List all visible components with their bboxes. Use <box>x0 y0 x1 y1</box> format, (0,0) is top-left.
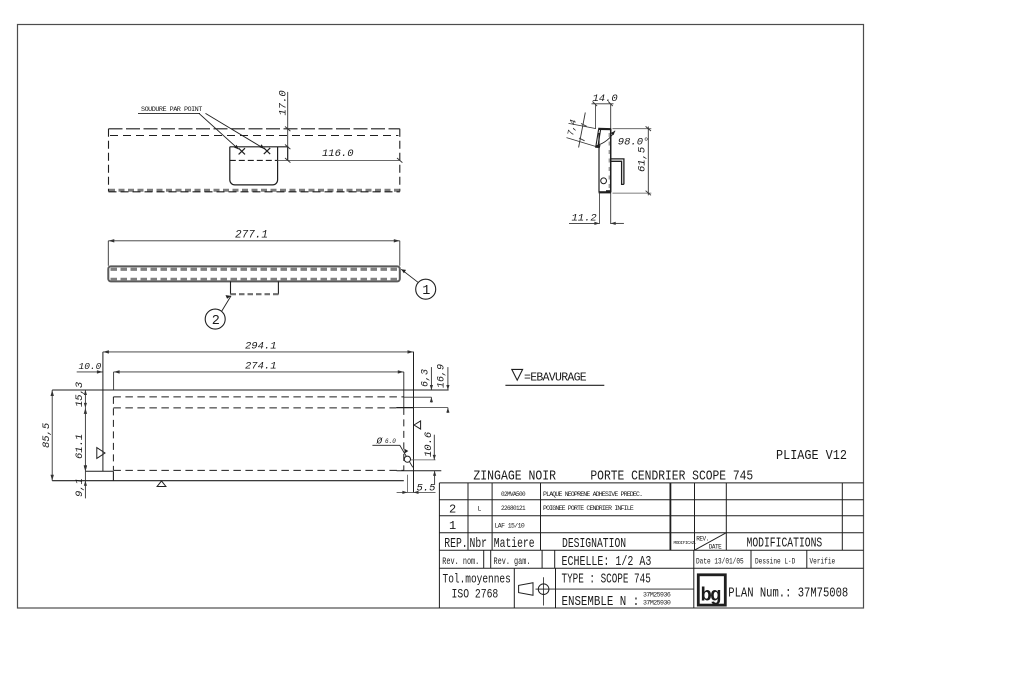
dim 15,3 line <box>84 390 86 408</box>
svg-text:9,1: 9,1 <box>74 478 86 497</box>
bend line dashed top2 <box>113 407 396 409</box>
bottom edge + left extension <box>52 480 404 482</box>
svg-text:Verifie: Verifie <box>810 558 836 567</box>
svg-text:SOUDURE PAR POINT: SOUDURE PAR POINT <box>141 106 202 114</box>
svg-text:PLAN Num.: 37M75008: PLAN Num.: 37M75008 <box>728 585 848 601</box>
col Matiere right <box>540 483 542 550</box>
projection symbol v axis <box>543 577 545 605</box>
balloon 2 leader <box>222 296 231 311</box>
body bottom edge thick hidden band <box>109 189 400 192</box>
svg-text:2: 2 <box>212 314 220 329</box>
weld leader 2 <box>206 113 265 148</box>
tab right edge <box>277 281 279 294</box>
svg-text:10.0: 10.0 <box>79 361 102 372</box>
row6 col symbol right <box>555 568 557 608</box>
svg-text:Rev. nom.: Rev. nom. <box>442 556 479 568</box>
weld mark x1 <box>239 148 245 154</box>
dim 277.1 ext left <box>107 241 109 266</box>
svg-text:ECHELLE: 1/2 A3: ECHELLE: 1/2 A3 <box>562 554 652 570</box>
web left edge <box>598 133 600 192</box>
col at 694.5 <box>694 483 696 550</box>
svg-text:Nbr: Nbr <box>470 536 487 552</box>
projection symbol circle <box>538 584 549 595</box>
svg-text:10.6: 10.6 <box>423 432 435 457</box>
svg-text:16,9: 16,9 <box>437 364 448 388</box>
angle 98 arc <box>596 131 615 146</box>
hidden dashes on web <box>608 133 610 190</box>
weld mark x2 <box>264 148 270 154</box>
type/ensemble divider <box>549 588 694 590</box>
dim 10.6 line <box>433 435 435 460</box>
row6 col tol right <box>513 568 515 608</box>
weld leader 1 <box>199 113 239 149</box>
flange end fold cap <box>595 146 599 148</box>
svg-text:bg: bg <box>701 585 721 607</box>
svg-text:294.1: 294.1 <box>245 341 277 353</box>
dim 9,1 line with outside arrows <box>84 471 86 498</box>
projection symbol cone <box>519 583 533 596</box>
svg-text:ENSEMBLE N :: ENSEMBLE N : <box>562 594 640 609</box>
deburr triangle right <box>414 421 421 429</box>
svg-text:TYPE : SCOPE 745: TYPE : SCOPE 745 <box>562 572 651 587</box>
bend line dashed right vertical <box>403 408 405 471</box>
svg-text:PLAQUE NEOPRENE ADHESIVE PREDE: PLAQUE NEOPRENE ADHESIVE PREDEC. <box>543 491 642 498</box>
svg-text:61,5: 61,5 <box>637 146 649 172</box>
col REP right <box>467 483 469 550</box>
svg-text:PORTE CENDRIER SCOPE 745: PORTE CENDRIER SCOPE 745 <box>590 467 753 484</box>
tab L outer <box>611 159 624 185</box>
tab L inner <box>611 161 624 184</box>
body outline right edge (dashed) <box>399 129 401 192</box>
dim 14.0 ext left <box>595 104 597 129</box>
rev/date diagonal <box>695 533 727 551</box>
ext for 6,3 <box>404 396 432 398</box>
bottom-left notch vertical <box>112 471 114 480</box>
svg-text:=EBAVURAGE: =EBAVURAGE <box>524 372 587 385</box>
block left edge <box>438 483 440 608</box>
dim 7,4 line <box>579 113 586 148</box>
dim 16,9 line <box>447 367 449 390</box>
dim 11.2 ext left <box>598 192 600 224</box>
body bottom edge thin dashed <box>109 191 400 193</box>
svg-text:DESIGNATION: DESIGNATION <box>562 536 626 552</box>
balloon 2 <box>205 309 225 329</box>
left edge + extension up to 294.1 <box>102 352 104 471</box>
bend line dashed bottom <box>113 469 403 471</box>
hole leader line <box>372 445 412 467</box>
col Designation right (thick) <box>669 483 671 550</box>
dim 116.0 line <box>278 159 400 161</box>
row5 col e <box>693 550 695 608</box>
svg-text:37M25936: 37M25936 <box>643 591 671 598</box>
ebavurage underline <box>505 384 604 386</box>
drawing frame <box>18 25 864 609</box>
strip hidden thick band top <box>111 268 399 271</box>
svg-text:PLIAGE V12: PLIAGE V12 <box>776 447 847 463</box>
dim 277.1 ext right <box>399 241 401 266</box>
svg-text:6,3: 6,3 <box>421 369 432 387</box>
flange end fold outer <box>596 129 599 146</box>
top-right notch edge + ext for 16,9 <box>396 407 413 409</box>
dim 17.0 line <box>287 92 289 147</box>
dim 61,5 ext top <box>613 128 652 130</box>
dim 6,3 line <box>430 367 432 390</box>
top edge + extensions <box>52 389 448 391</box>
bg logo box <box>698 575 725 605</box>
tab bottom hidden edge <box>231 293 279 295</box>
col at 726.3 <box>725 483 727 550</box>
dim 10.6 ext at hole center <box>410 459 435 461</box>
svg-text:Date 13/01/05: Date 13/01/05 <box>696 558 744 567</box>
svg-text:POIGNEE PORTE CENDRIER INFILE: POIGNEE PORTE CENDRIER INFILE <box>543 505 634 512</box>
tab left edge <box>230 281 232 294</box>
block outer top edge <box>439 482 863 484</box>
svg-text:274.1: 274.1 <box>245 361 277 373</box>
col Nbr right <box>491 483 493 550</box>
svg-text:DATE: DATE <box>709 544 722 551</box>
strip outline <box>108 266 400 281</box>
projection symbol h axis <box>536 588 550 590</box>
right edge full + extensions <box>413 352 415 493</box>
svg-text:1: 1 <box>422 284 430 299</box>
svg-text:L: L <box>478 506 482 513</box>
bottom-left notch horizontal <box>85 470 113 472</box>
row5 col c <box>541 550 543 568</box>
row line 5 <box>439 567 863 569</box>
svg-text:277.1: 277.1 <box>235 230 268 242</box>
right edge of web + dim extensions <box>610 104 612 224</box>
hole Ø6.0 <box>404 456 410 462</box>
svg-text:REV.: REV. <box>696 536 708 543</box>
dim 11.2 line left part <box>569 222 599 224</box>
ebavurage triangle symbol <box>512 369 523 380</box>
svg-text:02MVA500: 02MVA500 <box>501 491 526 498</box>
pocket hidden dashed line <box>230 159 278 161</box>
svg-text:37M25930: 37M25930 <box>643 599 671 606</box>
handle pocket outline <box>230 147 288 185</box>
body outline left edge (dashed) <box>108 129 110 192</box>
dim 274.1 line <box>114 371 404 373</box>
bend line dashed left vertical <box>112 397 114 471</box>
svg-text:116.0: 116.0 <box>322 148 354 160</box>
deburr triangle left <box>97 448 105 459</box>
svg-text:85,5: 85,5 <box>41 422 53 448</box>
dim 294.1 line <box>103 351 414 353</box>
svg-text:17.0: 17.0 <box>278 90 290 115</box>
dim 7,4 ext lines <box>569 123 597 128</box>
strip hidden thick band bottom <box>111 278 399 281</box>
dim 61,5 line <box>647 127 649 196</box>
row line 2 <box>439 515 863 517</box>
dim 61,5 ext bottom <box>613 192 652 194</box>
svg-text:7,4: 7,4 <box>566 119 579 137</box>
row line 3 <box>439 532 863 534</box>
svg-text:MODIFICATIONS: MODIFICATIONS <box>747 535 823 551</box>
svg-text:1: 1 <box>449 519 456 533</box>
col at 842.3 <box>841 483 843 550</box>
deburr triangle bottom <box>157 481 166 487</box>
row5 col a <box>483 550 485 568</box>
bottom-right notch edge + exts <box>397 470 442 472</box>
dim 5.5 ext from hole <box>406 475 408 493</box>
row line 1 <box>439 499 863 501</box>
body outline top edge (dashed) <box>109 128 400 130</box>
dim 10.0 line <box>77 371 103 373</box>
svg-text:Matiere: Matiere <box>494 536 535 552</box>
dim 85,5 line <box>51 390 53 481</box>
dim 5.5 line <box>397 491 436 493</box>
svg-text:Dessine L·D: Dessine L·D <box>755 558 796 567</box>
balloon 1 <box>416 279 436 299</box>
svg-text:ZINGAGE NOIR: ZINGAGE NOIR <box>473 467 556 483</box>
weld circle on web <box>601 178 607 184</box>
bend line dashed top1 <box>113 396 403 398</box>
top flange (98 deg) <box>598 128 611 131</box>
dim 11.2 line right part <box>611 222 624 224</box>
inner fold dashed line <box>110 135 399 137</box>
svg-text:Tol.moyennes: Tol.moyennes <box>443 573 511 587</box>
flange end fold inner <box>598 130 601 147</box>
row line 4 <box>439 549 863 551</box>
inner left extension for 274.1 <box>113 372 115 390</box>
svg-text:5.5: 5.5 <box>417 483 437 495</box>
svg-text:MODIFICAZ.: MODIFICAZ. <box>674 540 697 546</box>
svg-text:98.0°: 98.0° <box>618 136 650 148</box>
balloon 1 leader <box>401 269 418 282</box>
svg-text:Rev. gam.: Rev. gam. <box>494 556 531 568</box>
weld blob bottom <box>606 190 610 192</box>
dim 14.0 line <box>592 103 614 105</box>
svg-text:REP.: REP. <box>444 536 467 552</box>
row5 col f <box>750 550 752 568</box>
svg-text:22680121: 22680121 <box>501 505 526 512</box>
svg-text:15,3: 15,3 <box>74 382 86 407</box>
bottom edge <box>599 191 611 193</box>
weld note underline <box>138 112 200 114</box>
row5 col g <box>806 550 808 568</box>
svg-text:LAF 15/10: LAF 15/10 <box>495 522 525 529</box>
svg-text:14.0: 14.0 <box>593 93 618 105</box>
row5 col b <box>490 550 492 568</box>
svg-text:2: 2 <box>449 503 456 517</box>
svg-text:61.1: 61.1 <box>74 434 86 459</box>
svg-text:6.0: 6.0 <box>385 438 396 445</box>
row5 col d <box>554 550 556 568</box>
inner right edge solid upper <box>403 372 405 408</box>
svg-text:11.2: 11.2 <box>572 213 597 225</box>
dim 61.1 line <box>84 408 86 471</box>
dim 277.1 line <box>108 240 400 242</box>
svg-text:ISO 2768: ISO 2768 <box>452 587 499 602</box>
